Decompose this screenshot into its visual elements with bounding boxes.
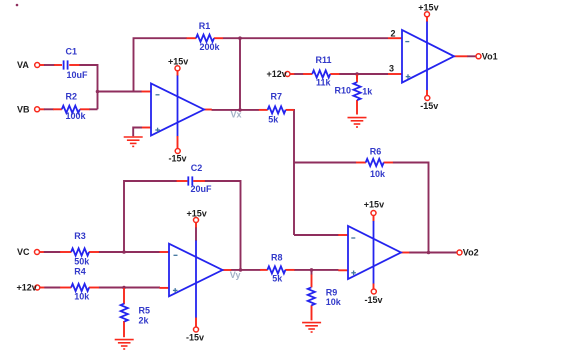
port +12v upper	[285, 72, 290, 77]
U3 power line +15v	[195, 223, 197, 229]
resistor R3 50k	[60, 251, 71, 253]
U4 triangle	[348, 226, 401, 279]
wire C2 feedback left leg	[124, 181, 177, 252]
svg-text:2k: 2k	[139, 316, 150, 326]
svg-text:+15v: +15v	[364, 199, 384, 209]
wire R3 to op-amp U3 inverting input	[99, 251, 161, 253]
svg-text:11k: 11k	[316, 78, 332, 88]
resistor R1 200k	[187, 37, 197, 39]
svg-text:-15v: -15v	[420, 101, 438, 111]
node R8/R9	[310, 268, 314, 272]
capacitor C1	[54, 64, 62, 66]
node Vx	[238, 108, 242, 112]
svg-text:10k: 10k	[74, 292, 90, 302]
wire U2 output to Vo1	[467, 55, 476, 57]
svg-text:2: 2	[391, 29, 396, 39]
port +12v lower	[35, 285, 40, 290]
svg-text:Vo2: Vo2	[463, 248, 479, 258]
resistor R11 11k	[303, 73, 312, 75]
U1 triangle	[151, 84, 204, 136]
svg-text:VA: VA	[17, 60, 29, 70]
wire R2 to corner	[89, 108, 98, 110]
ground at R9	[302, 323, 321, 332]
node R1/Vx	[238, 36, 242, 40]
U1 plus mark	[155, 129, 160, 131]
svg-text:+15v: +15v	[187, 208, 207, 218]
resistor R7 5k	[259, 109, 268, 111]
U4 minus mark	[351, 237, 355, 239]
svg-text:C2: C2	[191, 163, 203, 173]
U3 -15v terminal	[194, 327, 199, 332]
U2 output pin	[454, 55, 467, 57]
port Vo1	[476, 54, 481, 59]
wire R10 top stub	[356, 74, 358, 79]
U1 non-inverting input pin with ground	[142, 127, 152, 129]
node C2/R3	[122, 250, 126, 254]
node Vy	[239, 268, 243, 272]
port VB	[35, 107, 40, 112]
wire Vx vertical to R1 line	[239, 38, 241, 110]
U2 plus mark	[406, 76, 411, 78]
resistor R5 2k	[123, 288, 125, 304]
wire R4 to op-amp U3 non-inverting input	[99, 287, 161, 289]
wire R1 feedback left leg	[134, 38, 187, 91]
op-amp U3	[160, 208, 232, 342]
U3 inverting input pin	[160, 251, 170, 253]
svg-text:R6: R6	[370, 147, 382, 157]
svg-text:R8: R8	[271, 252, 283, 262]
svg-text:Vy: Vy	[230, 270, 241, 280]
U4 power line +15v	[373, 216, 375, 222]
wire R7 to vertical bus	[293, 110, 295, 235]
wire +12v port to R11	[290, 73, 295, 75]
U4 +15v terminal	[371, 211, 376, 216]
U4 non-inverting input pin	[338, 269, 348, 271]
capacitor C2	[177, 180, 188, 182]
svg-text:R3: R3	[74, 231, 86, 241]
U1 output pin	[204, 109, 212, 111]
svg-text:R1: R1	[199, 21, 211, 31]
svg-text:20uF: 20uF	[191, 184, 213, 194]
wire U4 output to Vo2	[409, 252, 457, 254]
op-amp U4	[338, 199, 409, 305]
svg-text:5k: 5k	[268, 114, 279, 124]
svg-text:-15v: -15v	[186, 332, 204, 342]
svg-text:200k: 200k	[200, 42, 221, 52]
svg-text:50k: 50k	[74, 257, 90, 267]
svg-text:C1: C1	[66, 47, 78, 57]
resistor R8 5k	[260, 269, 268, 271]
svg-text:1k: 1k	[362, 87, 373, 97]
svg-text:5k: 5k	[272, 273, 283, 283]
op-amp U2	[388, 3, 467, 111]
wire bus to op-amp U4 inverting input	[294, 234, 339, 236]
U3 output pin	[223, 269, 232, 271]
wire VA to C1	[40, 64, 45, 66]
svg-text:10k: 10k	[326, 297, 342, 307]
wire U3 output to node Vy	[231, 269, 261, 271]
ground at U1 + input	[124, 137, 143, 146]
ground at R5	[115, 340, 134, 349]
port VA	[35, 63, 40, 68]
U4 -15v terminal	[371, 289, 376, 294]
node R4/R5	[122, 286, 126, 290]
svg-text:-15v: -15v	[169, 154, 187, 164]
svg-text:R4: R4	[74, 267, 86, 277]
U3 triangle	[169, 244, 223, 297]
ground at R10	[348, 118, 367, 127]
wire R6 branch left	[294, 162, 357, 164]
U2 pin 2 input	[388, 37, 402, 39]
svg-text:+12v: +12v	[267, 69, 287, 79]
U4 output pin	[401, 252, 409, 254]
svg-text:+12v: +12v	[17, 283, 37, 293]
U2 +15v terminal	[425, 12, 430, 17]
port VC	[35, 250, 40, 255]
node R10/R11	[355, 72, 359, 76]
wire R1 to op-amp U2 pin 2	[223, 37, 388, 39]
node at VA/VB junction	[96, 90, 100, 94]
svg-text:VB: VB	[17, 104, 30, 114]
resistor R9 10k	[311, 275, 313, 288]
svg-text:R10: R10	[335, 86, 352, 96]
resistor R6 10k	[356, 162, 366, 164]
svg-text:Vx: Vx	[231, 109, 242, 119]
svg-text:R9: R9	[326, 288, 338, 298]
U1 inverting input pin	[142, 91, 152, 93]
svg-text:10k: 10k	[370, 169, 386, 179]
wire VC to R3	[40, 251, 45, 253]
wire +12v port to R4	[40, 287, 45, 289]
svg-text:R2: R2	[66, 92, 78, 102]
U1 +15v terminal	[175, 66, 180, 71]
resistor R2 100k	[53, 108, 62, 110]
svg-text:100k: 100k	[66, 111, 87, 121]
svg-text:+15v: +15v	[418, 3, 438, 13]
resistor R4 10k	[60, 287, 71, 289]
wire VB to R2	[40, 108, 45, 110]
U3 minus mark	[174, 254, 178, 256]
svg-text:VC: VC	[17, 247, 30, 257]
U4 plus mark	[351, 272, 356, 274]
wire U1 output to node Vx	[212, 109, 260, 111]
resistor R10 1k	[356, 75, 358, 83]
svg-text:R5: R5	[139, 305, 151, 315]
svg-text:R7: R7	[271, 92, 283, 102]
U1 power line +15v	[177, 71, 179, 76]
U3 plus mark	[173, 289, 178, 291]
svg-text:+15v: +15v	[168, 57, 188, 67]
wire C2 right leg down to Vy	[205, 181, 241, 270]
wire R9 top stub	[311, 270, 313, 275]
U2 power line +15v	[426, 17, 428, 22]
port Vo2	[457, 250, 462, 255]
U3 non-inverting input pin	[160, 287, 170, 289]
U4 inverting input pin	[338, 234, 348, 236]
stray wire dot	[16, 4, 19, 7]
wire node to op-amp U1 inverting input	[98, 91, 143, 93]
svg-text:Vo1: Vo1	[482, 51, 498, 61]
wire R6 right to U4 output	[393, 163, 429, 253]
wire C1 to corner and down to R2 node	[79, 65, 98, 109]
wire R8 to op-amp U4 non-inverting input	[294, 269, 339, 271]
U2 pin 3 input	[388, 73, 402, 75]
U1 -15v terminal	[175, 149, 180, 154]
U3 +15v terminal	[194, 218, 199, 223]
U2 minus mark	[405, 41, 409, 43]
svg-text:R11: R11	[316, 55, 332, 65]
wire R11 to U2 pin 3	[339, 73, 388, 75]
op-amp U1	[124, 57, 212, 164]
svg-text:3: 3	[389, 64, 394, 74]
node R6/Vo2	[427, 251, 431, 255]
U1 minus mark	[156, 94, 160, 96]
svg-text:-15v: -15v	[365, 295, 383, 305]
U2 triangle	[402, 30, 454, 83]
U2 -15v terminal	[425, 96, 430, 101]
svg-text:10uF: 10uF	[67, 70, 89, 80]
